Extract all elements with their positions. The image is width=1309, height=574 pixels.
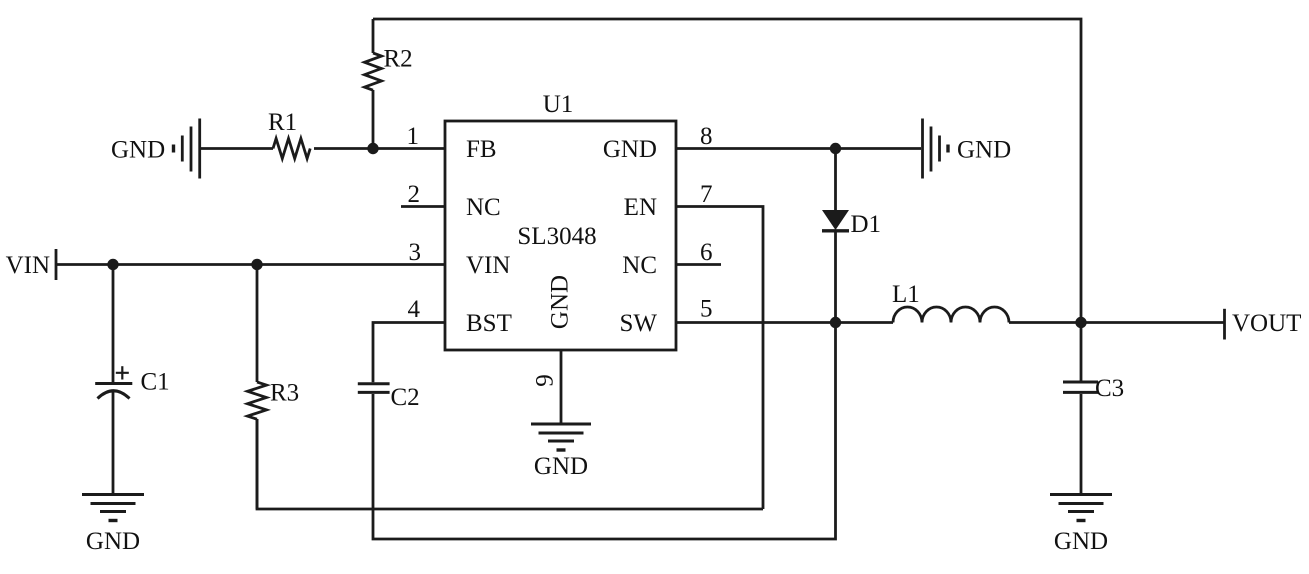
svg-text:2: 2 [408, 181, 421, 208]
wire VIN rail to pin 3 [56, 263, 445, 266]
node junction R3 [251, 259, 262, 270]
wire top feedback net (R2 top to output node) [373, 19, 1081, 323]
svg-text:C3: C3 [1095, 375, 1124, 402]
svg-text:C2: C2 [391, 384, 420, 411]
wire GND to R1 [201, 147, 273, 150]
ground symbol (C3) [1050, 495, 1112, 521]
svg-text:FB: FB [466, 136, 497, 163]
wire L1 to output node [1009, 321, 1081, 324]
svg-text:VOUT: VOUT [1232, 310, 1301, 337]
pin 6 stub [676, 263, 721, 266]
svg-text:SL3048: SL3048 [517, 223, 596, 250]
wire C2 bottom to SW net [373, 323, 836, 540]
wire SW to L1 [836, 321, 894, 324]
ground symbol (C1) [82, 495, 144, 521]
svg-text:VIN: VIN [466, 252, 510, 279]
svg-text:GND: GND [111, 137, 165, 164]
capacitor C1 (polarized) [95, 265, 132, 495]
pin 2 stub [401, 205, 445, 208]
ground symbol (left, at R1) [174, 119, 200, 179]
terminal VOUT [1223, 309, 1226, 340]
svg-text:7: 7 [700, 181, 713, 208]
svg-text:GND: GND [86, 528, 140, 555]
svg-text:GND: GND [957, 137, 1011, 164]
svg-text:R1: R1 [268, 109, 297, 136]
pin 7 EN wire [676, 207, 763, 510]
wire to VOUT terminal [1081, 321, 1225, 324]
svg-text:6: 6 [700, 239, 713, 266]
node junction SW [830, 317, 841, 328]
node junction C1 [107, 259, 118, 270]
svg-text:8: 8 [700, 123, 713, 150]
svg-text:GND: GND [603, 136, 657, 163]
node junction pin8/D1 [830, 143, 841, 154]
svg-text:1: 1 [407, 123, 420, 150]
svg-text:C1: C1 [141, 369, 170, 396]
svg-text:EN: EN [624, 194, 657, 221]
pin 8 wire to ground [676, 147, 921, 150]
svg-text:SW: SW [620, 310, 658, 337]
IC U1 body [445, 121, 676, 350]
pin 5 SW wire [676, 321, 836, 324]
pin 4 BST wire to C2 [373, 323, 445, 383]
terminal VIN [55, 249, 58, 280]
ground symbol (right, at pin 8) [923, 119, 949, 179]
svg-text:GND: GND [1054, 528, 1108, 555]
node junction VOUT [1075, 317, 1086, 328]
svg-text:4: 4 [408, 296, 421, 323]
svg-text:NC: NC [466, 194, 501, 221]
svg-text:3: 3 [409, 239, 422, 266]
wire EN to R3 bottom [257, 419, 763, 509]
wire R1 to pin 1 FB [314, 147, 445, 150]
svg-text:9: 9 [532, 374, 559, 387]
svg-text:NC: NC [622, 252, 657, 279]
capacitor C2 [358, 384, 390, 393]
svg-text:5: 5 [700, 296, 713, 323]
diode D1 [822, 149, 849, 323]
svg-text:GND: GND [547, 275, 574, 329]
svg-text:D1: D1 [851, 211, 882, 238]
node junction FB [367, 143, 378, 154]
svg-text:L1: L1 [892, 281, 920, 308]
resistor R3 [248, 265, 267, 510]
ground symbol (pin 9) [531, 424, 591, 450]
svg-text:R2: R2 [384, 46, 413, 73]
svg-text:BST: BST [466, 310, 512, 337]
resistor R2 [365, 19, 382, 149]
svg-text:U1: U1 [543, 91, 574, 118]
svg-text:VIN: VIN [6, 252, 50, 279]
capacitor C3 [1063, 323, 1098, 495]
resistor R1 [273, 139, 310, 159]
svg-text:GND: GND [534, 453, 588, 480]
pin 9 lead [560, 350, 563, 424]
svg-text:R3: R3 [270, 380, 299, 407]
inductor L1 [893, 307, 1009, 323]
